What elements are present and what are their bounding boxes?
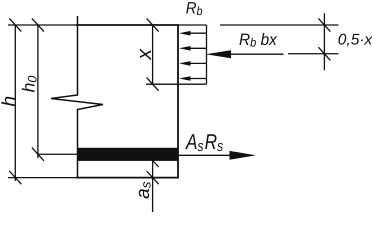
h0 tick top (32, 18, 44, 31)
svg-text:h: h (0, 96, 20, 107)
stress arrow 1 (179, 31, 206, 36)
svg-text:x: x (133, 47, 156, 60)
beam right edge (177, 24, 179, 178)
R_b bx resultant arrow (points left) (206, 50, 284, 58)
stress block bottom edge + x-dim extension line (146, 83, 207, 85)
0,5x dimension line (323, 13, 325, 70)
0,5x bottom extension line (288, 53, 339, 55)
stress block right edge (206, 25, 208, 84)
svg-text:h0: h0 (19, 76, 40, 93)
beam bottom edge (76, 177, 179, 179)
a_s tick bottom (at beam bottom edge) (147, 171, 159, 184)
stress arrow 3 (179, 61, 206, 66)
svg-text:Rb: Rb (186, 0, 203, 18)
svg-text:as: as (133, 181, 154, 199)
x tick bottom (147, 78, 159, 91)
top extension line (left of beam) (8, 24, 77, 26)
a_s dimension line (152, 150, 154, 212)
a_s tick top (at bar bottom) (147, 154, 159, 167)
0,5x top extension line (220, 24, 339, 26)
svg-text:AsRs: AsRs (184, 130, 223, 155)
h dimension line (14, 25, 16, 181)
stress block top edge (178, 24, 207, 26)
h0 dimension line (37, 25, 39, 158)
beam top edge (76, 24, 178, 26)
x dimension line (152, 25, 154, 84)
reinforcement bar (black) (77, 148, 178, 161)
svg-text:Rb bx: Rb bx (239, 31, 277, 50)
h tick top (9, 18, 21, 31)
x tick top (147, 18, 159, 31)
svg-text:0,5·x: 0,5·x (338, 32, 372, 49)
h0 tick bottom (32, 148, 44, 161)
bottom extension line (left of beam, h dimension) (8, 177, 77, 179)
beam left edge with break zigzag (51, 16, 103, 178)
A_s R_s tension arrow (points right) (178, 151, 256, 160)
0,5x tick bottom (318, 47, 330, 60)
h0 extension line (bar centroid) (38, 153, 77, 155)
stress arrow 2 (179, 46, 206, 51)
0,5x tick top (318, 18, 330, 31)
stress arrow 4 (179, 76, 206, 81)
h tick bottom (9, 171, 21, 184)
